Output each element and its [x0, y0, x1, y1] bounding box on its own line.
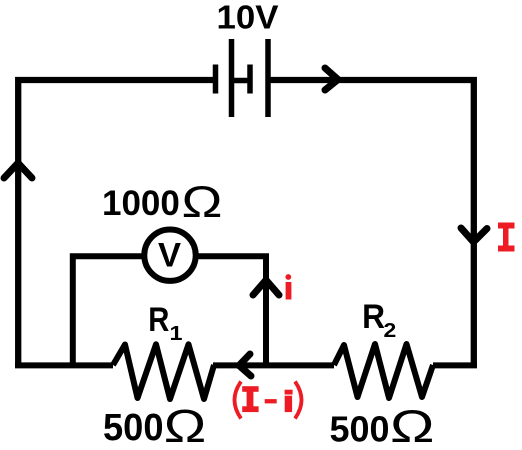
battery long plate (pos, cell 1) [229, 39, 235, 117]
svg-text:Ω: Ω [164, 400, 207, 450]
svg-text:Ω: Ω [182, 178, 223, 227]
voltmeter V1 circle [144, 230, 195, 281]
label I (red, current) [498, 223, 515, 252]
svg-text:500: 500 [330, 408, 390, 449]
wire: top-left + left side [18, 80, 213, 365]
svg-text:V: V [158, 237, 181, 275]
battery short plate (neg, cell 2) [247, 65, 253, 94]
svg-text:1: 1 [170, 323, 183, 345]
svg-text:10V: 10V [217, 0, 279, 36]
voltmeter branch: top-right horizontal + right vertical wire [196, 256, 266, 366]
resistor R1 zigzag [113, 344, 214, 399]
wire: battery inter-cell connector [231, 78, 250, 84]
wire: bottom-middle segment [213, 362, 334, 368]
arrow on left wire (current direction, up) [4, 163, 32, 178]
svg-text:500: 500 [103, 407, 164, 449]
battery short plate (neg, cell 1) [213, 65, 219, 94]
wire: bottom-right segment [433, 362, 477, 368]
svg-text:R: R [362, 298, 385, 336]
wire: top-right + right side [268, 80, 474, 365]
arrow on right wire (current direction, down) [461, 228, 487, 242]
resistor R2 zigzag [334, 344, 433, 398]
battery B1 (10V) [216, 39, 269, 117]
svg-text:2: 2 [384, 320, 397, 342]
svg-text:Ω: Ω [390, 401, 435, 450]
arrow on top wire (current direction, right) [325, 68, 338, 90]
svg-text:1000: 1000 [102, 184, 180, 223]
arrow on voltmeter branch (current i, up) [253, 280, 279, 295]
label (I-i) (red) [235, 382, 302, 419]
svg-text:R: R [148, 301, 169, 339]
wire: bottom-left segment [15, 362, 113, 368]
battery long plate (pos, cell 2) [265, 39, 271, 117]
voltmeter branch: left vertical wire + top-left horizontal [73, 256, 144, 366]
arrow on bottom wire (current I-i, left) [239, 354, 251, 376]
label i (red, branch current) [285, 274, 291, 299]
